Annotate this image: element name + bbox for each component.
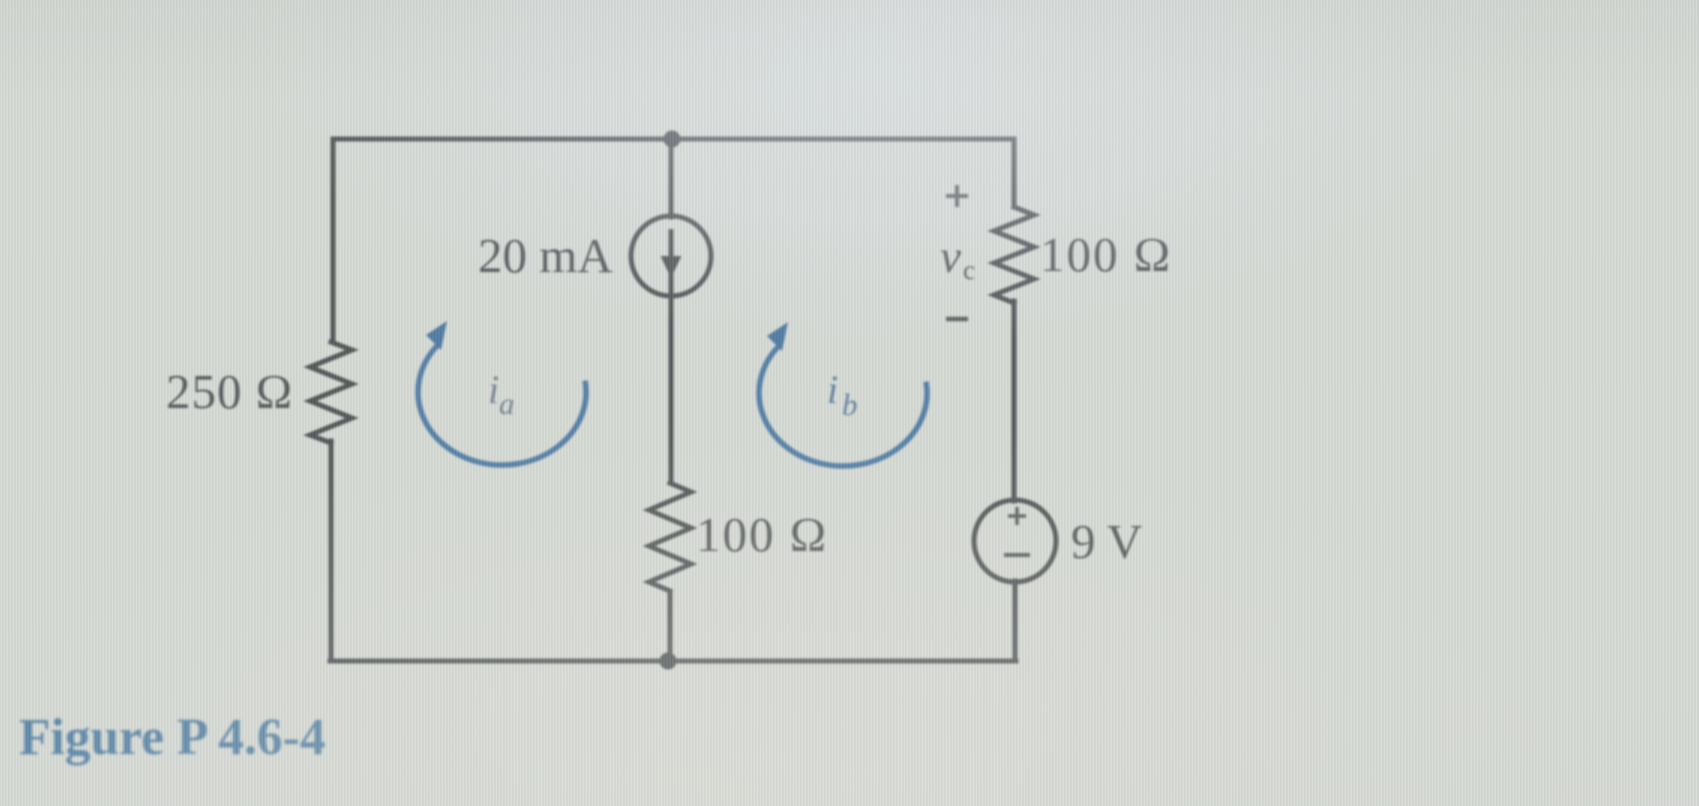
svg-text:c: c [963, 255, 975, 285]
svg-text:v: v [940, 231, 961, 283]
svg-text:i: i [827, 367, 838, 412]
svg-text:20 mA: 20 mA [478, 228, 613, 283]
svg-text:i: i [488, 367, 499, 412]
svg-text:9 V: 9 V [1071, 514, 1142, 569]
svg-text:100 Ω: 100 Ω [1040, 227, 1172, 282]
svg-text:Figure P 4.6-4: Figure P 4.6-4 [19, 709, 326, 766]
svg-text:100 Ω: 100 Ω [696, 507, 828, 562]
svg-text:a: a [499, 386, 515, 421]
svg-text:250 Ω: 250 Ω [166, 364, 293, 419]
svg-text:b: b [842, 387, 858, 422]
